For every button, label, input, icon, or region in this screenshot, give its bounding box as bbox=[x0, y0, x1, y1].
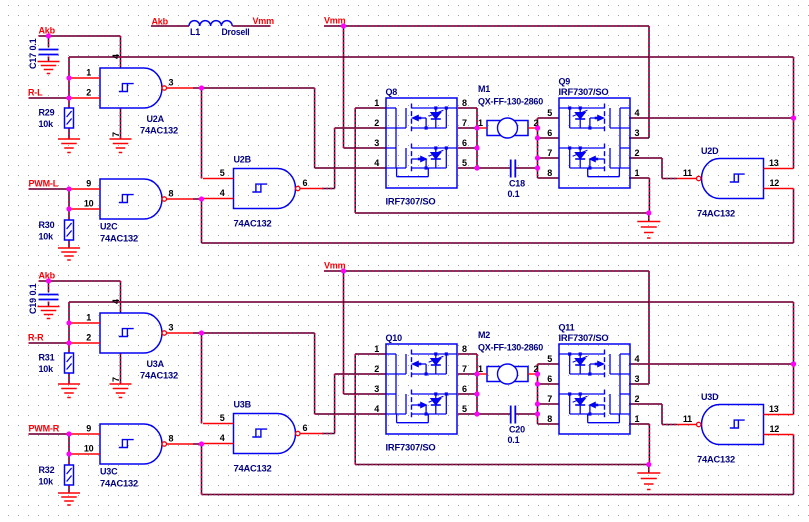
svg-text:R31: R31 bbox=[39, 353, 55, 363]
svg-text:Vmm: Vmm bbox=[253, 16, 275, 26]
svg-text:IRF7307/SO: IRF7307/SO bbox=[386, 197, 436, 207]
svg-text:10k: 10k bbox=[39, 364, 55, 374]
svg-text:74AC132: 74AC132 bbox=[234, 219, 272, 229]
svg-text:11: 11 bbox=[683, 168, 692, 178]
svg-text:R-R: R-R bbox=[28, 333, 44, 343]
svg-text:6: 6 bbox=[547, 128, 552, 138]
svg-text:74AC132: 74AC132 bbox=[140, 126, 178, 136]
svg-text:C20: C20 bbox=[509, 425, 525, 435]
svg-text:1: 1 bbox=[635, 168, 640, 178]
svg-text:U3B: U3B bbox=[234, 400, 252, 410]
svg-text:QX-FF-130-2860: QX-FF-130-2860 bbox=[478, 343, 543, 353]
svg-text:0.1: 0.1 bbox=[28, 283, 38, 295]
svg-text:4: 4 bbox=[220, 433, 225, 443]
svg-text:Q10: Q10 bbox=[386, 333, 403, 343]
svg-text:U2C: U2C bbox=[100, 222, 118, 232]
svg-text:1: 1 bbox=[86, 68, 91, 78]
svg-text:6: 6 bbox=[547, 374, 552, 384]
svg-text:5: 5 bbox=[547, 108, 552, 118]
svg-text:13: 13 bbox=[769, 404, 779, 414]
svg-text:2: 2 bbox=[635, 148, 640, 158]
svg-text:3: 3 bbox=[169, 78, 174, 88]
svg-text:5: 5 bbox=[462, 404, 467, 414]
svg-text:L1: L1 bbox=[190, 27, 200, 37]
svg-text:1: 1 bbox=[86, 313, 91, 323]
svg-text:Q11: Q11 bbox=[559, 323, 575, 333]
svg-text:3: 3 bbox=[374, 384, 379, 394]
svg-text:U2D: U2D bbox=[701, 146, 719, 156]
svg-text:74AC132: 74AC132 bbox=[140, 371, 178, 381]
svg-text:Q9: Q9 bbox=[559, 77, 571, 87]
svg-text:3: 3 bbox=[635, 128, 640, 138]
svg-text:10k: 10k bbox=[39, 119, 55, 129]
svg-text:0.1: 0.1 bbox=[508, 435, 520, 445]
svg-text:R29: R29 bbox=[39, 108, 55, 118]
svg-text:2: 2 bbox=[374, 364, 379, 374]
svg-text:R32: R32 bbox=[39, 465, 55, 475]
svg-text:IRF7307/SO: IRF7307/SO bbox=[386, 443, 436, 453]
svg-text:6: 6 bbox=[303, 178, 308, 188]
svg-text:PWM-L: PWM-L bbox=[29, 179, 59, 189]
svg-text:4: 4 bbox=[220, 188, 225, 198]
svg-text:11: 11 bbox=[683, 414, 692, 424]
svg-text:0.1: 0.1 bbox=[28, 38, 38, 50]
svg-text:C18: C18 bbox=[509, 179, 525, 189]
svg-text:13: 13 bbox=[769, 158, 779, 168]
svg-text:7: 7 bbox=[547, 148, 552, 158]
svg-text:8: 8 bbox=[169, 434, 174, 444]
svg-text:12: 12 bbox=[770, 178, 780, 188]
svg-text:9: 9 bbox=[86, 424, 91, 434]
svg-text:7: 7 bbox=[547, 394, 552, 404]
svg-text:4: 4 bbox=[374, 404, 379, 414]
svg-text:2: 2 bbox=[86, 88, 91, 98]
svg-text:4: 4 bbox=[111, 54, 121, 59]
svg-text:6: 6 bbox=[462, 138, 467, 148]
svg-text:2: 2 bbox=[374, 118, 379, 128]
svg-text:IRF7307/SO: IRF7307/SO bbox=[559, 87, 609, 97]
svg-text:2: 2 bbox=[86, 333, 91, 343]
svg-text:QX-FF-130-2860: QX-FF-130-2860 bbox=[478, 97, 543, 107]
svg-text:C17: C17 bbox=[28, 53, 38, 69]
svg-text:U2A: U2A bbox=[147, 114, 165, 124]
svg-text:PWM-R: PWM-R bbox=[29, 424, 60, 434]
svg-text:1: 1 bbox=[635, 414, 640, 424]
svg-text:12: 12 bbox=[770, 424, 780, 434]
svg-text:4: 4 bbox=[635, 108, 640, 118]
svg-text:U3D: U3D bbox=[701, 392, 719, 402]
svg-text:4: 4 bbox=[374, 158, 379, 168]
svg-text:6: 6 bbox=[303, 423, 308, 433]
svg-text:8: 8 bbox=[169, 189, 174, 199]
svg-text:10k: 10k bbox=[39, 477, 55, 487]
svg-text:7: 7 bbox=[111, 377, 121, 382]
svg-text:R-L: R-L bbox=[28, 88, 43, 98]
svg-text:74AC132: 74AC132 bbox=[697, 455, 735, 465]
svg-text:4: 4 bbox=[635, 354, 640, 364]
svg-text:74AC132: 74AC132 bbox=[697, 209, 735, 219]
svg-text:8: 8 bbox=[462, 344, 467, 354]
svg-text:10k: 10k bbox=[39, 232, 55, 242]
svg-text:U3A: U3A bbox=[147, 359, 165, 369]
svg-text:9: 9 bbox=[86, 179, 91, 189]
svg-text:U2B: U2B bbox=[234, 155, 252, 165]
svg-text:R30: R30 bbox=[39, 220, 55, 230]
svg-text:8: 8 bbox=[547, 168, 552, 178]
svg-text:4: 4 bbox=[111, 299, 121, 304]
svg-text:6: 6 bbox=[462, 384, 467, 394]
svg-text:5: 5 bbox=[220, 168, 225, 178]
svg-text:5: 5 bbox=[547, 354, 552, 364]
svg-text:IRF7307/SO: IRF7307/SO bbox=[559, 333, 609, 343]
svg-text:3: 3 bbox=[635, 374, 640, 384]
svg-text:0.1: 0.1 bbox=[508, 189, 520, 199]
svg-text:7: 7 bbox=[462, 118, 467, 128]
svg-text:1: 1 bbox=[374, 344, 379, 354]
svg-text:2: 2 bbox=[635, 394, 640, 404]
svg-text:Akb: Akb bbox=[152, 17, 169, 27]
svg-text:7: 7 bbox=[111, 132, 121, 137]
svg-text:M1: M1 bbox=[478, 84, 490, 94]
svg-text:Drosell: Drosell bbox=[222, 27, 250, 37]
svg-text:M2: M2 bbox=[478, 330, 490, 340]
svg-text:7: 7 bbox=[462, 364, 467, 374]
svg-text:10: 10 bbox=[84, 199, 94, 209]
svg-text:74AC132: 74AC132 bbox=[234, 464, 272, 474]
svg-text:74AC132: 74AC132 bbox=[100, 234, 138, 244]
svg-text:5: 5 bbox=[462, 158, 467, 168]
svg-text:8: 8 bbox=[547, 414, 552, 424]
svg-text:U3C: U3C bbox=[100, 467, 118, 477]
svg-text:1: 1 bbox=[374, 98, 379, 108]
svg-text:5: 5 bbox=[220, 413, 225, 423]
svg-text:10: 10 bbox=[84, 444, 94, 454]
svg-text:74AC132: 74AC132 bbox=[100, 479, 138, 489]
svg-text:3: 3 bbox=[169, 323, 174, 333]
svg-text:8: 8 bbox=[462, 98, 467, 108]
svg-text:Q8: Q8 bbox=[386, 87, 398, 97]
svg-text:C19: C19 bbox=[28, 298, 38, 314]
svg-text:3: 3 bbox=[374, 138, 379, 148]
